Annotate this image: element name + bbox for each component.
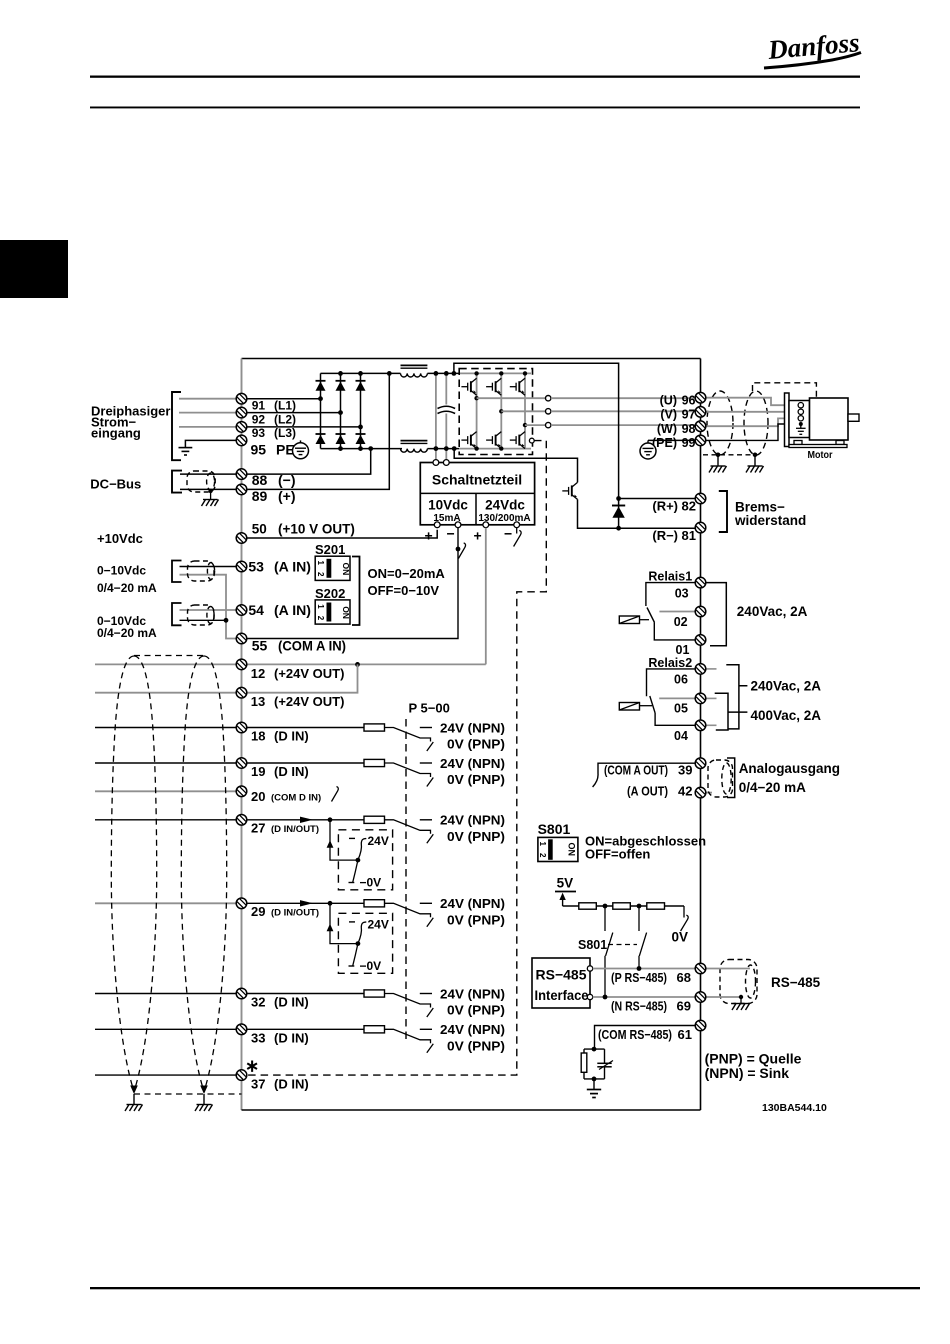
earth ground RC xyxy=(587,1090,601,1098)
resistor R1 xyxy=(579,903,597,909)
24V dash row 33 xyxy=(420,1028,432,1030)
node leg V bottom xyxy=(499,446,503,450)
brake bracket xyxy=(719,491,727,532)
svg-text:18: 18 xyxy=(251,729,265,744)
terminal 61 right xyxy=(695,1020,706,1031)
DC bus bracket xyxy=(172,471,182,493)
inverter output W wire xyxy=(525,424,546,426)
node 54 return xyxy=(224,618,229,623)
svg-text:0V (PNP): 0V (PNP) xyxy=(447,829,505,844)
svg-text:04: 04 xyxy=(674,729,688,743)
chassis ground lens2 xyxy=(195,1105,213,1112)
choke L1 top xyxy=(401,365,428,377)
relay2 stub 05 right xyxy=(706,697,717,699)
selector 24V contact row 29 xyxy=(349,921,355,923)
svg-text:Relais1: Relais1 xyxy=(648,570,692,584)
terminal 29 xyxy=(236,898,247,909)
motor flange xyxy=(785,393,790,447)
analog out bracket xyxy=(727,758,735,798)
node 92/leg2 xyxy=(338,410,343,415)
wire W to 98 xyxy=(551,424,701,426)
terminal 69 right xyxy=(695,992,706,1003)
wire L3 xyxy=(179,426,242,428)
diode D1 upper xyxy=(316,381,326,391)
svg-text:RS−485: RS−485 xyxy=(536,966,587,982)
terminal 27 xyxy=(236,815,247,826)
svg-text:13: 13 xyxy=(251,694,265,709)
terminal 37 xyxy=(236,1070,247,1081)
svg-text:19: 19 xyxy=(251,764,265,779)
diode D2 upper xyxy=(336,381,346,391)
selector box row 27 xyxy=(338,830,392,890)
24V dash row 18 xyxy=(420,727,432,729)
wire 98 to motor xyxy=(706,418,798,426)
svg-text:24V (NPN): 24V (NPN) xyxy=(440,720,505,735)
wire 12 left xyxy=(95,663,242,665)
chassis ground lens1 xyxy=(125,1105,143,1112)
PE symbol 95 xyxy=(293,440,309,458)
switch row 33 xyxy=(385,1029,434,1053)
svg-text:(V): (V) xyxy=(660,408,677,422)
resistor R3 xyxy=(647,903,665,909)
motor PE dashed link xyxy=(753,383,817,398)
inverter dashed module box xyxy=(459,369,532,455)
capacitor C1 plates xyxy=(438,406,456,408)
resistor row 19 xyxy=(364,759,385,766)
wire 54 signal xyxy=(180,609,242,611)
terminal 68 right xyxy=(695,963,706,974)
svg-text:92: 92 xyxy=(252,412,266,426)
svg-text:42: 42 xyxy=(678,784,692,799)
selector 0V contact row 27 xyxy=(353,860,358,883)
wire 19 right xyxy=(242,762,365,764)
node switch1 69 xyxy=(603,995,608,1000)
svg-text:(D IN): (D IN) xyxy=(274,1030,309,1045)
terminal 04 right xyxy=(695,720,706,731)
branch to selector row 27 xyxy=(330,820,358,860)
svg-text:98: 98 xyxy=(682,422,696,436)
svg-text:37: 37 xyxy=(251,1076,265,1091)
svg-text:03: 03 xyxy=(675,586,689,600)
svg-text:(A OUT): (A OUT) xyxy=(627,784,668,799)
terminal 02 right xyxy=(695,606,706,617)
terminal 42 right xyxy=(695,787,706,798)
wire 92 to rectifier xyxy=(242,412,341,414)
svg-text:(A IN): (A IN) xyxy=(274,559,311,575)
svg-text:P 5−00: P 5−00 xyxy=(409,701,450,716)
diode D4 lower xyxy=(316,434,326,444)
switch row 32 xyxy=(385,994,434,1018)
wire V to 97 xyxy=(551,410,701,412)
terminal 82 right xyxy=(695,493,706,504)
wire 29 left xyxy=(95,902,242,904)
relay1 coil xyxy=(619,616,639,624)
resistor row 33 xyxy=(364,1026,385,1033)
cable shield 54 xyxy=(188,605,215,625)
node top bus cap left xyxy=(434,371,439,376)
node leg U bottom xyxy=(474,446,478,450)
svg-text:(−): (−) xyxy=(278,472,296,488)
S801 switch 2 xyxy=(639,906,647,969)
interface pin N xyxy=(587,994,592,999)
node leg2 top xyxy=(338,371,343,376)
wire L1 xyxy=(179,398,242,400)
switch row 29 xyxy=(385,903,434,927)
svg-text:0V (PNP): 0V (PNP) xyxy=(447,912,505,927)
resistor row 32 xyxy=(364,990,385,997)
svg-text:0V (PNP): 0V (PNP) xyxy=(447,772,505,787)
diode D6 lower xyxy=(356,434,366,444)
node leg V mid xyxy=(499,409,503,413)
svg-text:(COM D IN): (COM D IN) xyxy=(271,793,321,804)
wire 10V- to 55 xyxy=(457,528,459,549)
resistor R term xyxy=(581,1053,587,1072)
svg-text:97: 97 xyxy=(682,408,696,422)
Schaltnetzteil box xyxy=(420,463,534,525)
pullup network wire xyxy=(563,905,684,907)
wire 27 right xyxy=(242,819,365,821)
svg-text:81: 81 xyxy=(682,528,696,543)
terminal 88 xyxy=(236,469,247,480)
svg-text:(NPN) = Sink: (NPN) = Sink xyxy=(705,1065,790,1081)
terminal 06 right xyxy=(695,664,706,675)
wire to 82 xyxy=(619,498,701,500)
Danfoss logo xyxy=(764,27,861,68)
svg-text:ON: ON xyxy=(341,606,351,619)
wire 96 to motor xyxy=(706,398,798,406)
24V dash row 19 xyxy=(420,762,432,764)
wire 27 left xyxy=(95,819,242,821)
motor terminal W xyxy=(798,416,803,421)
relay2 wire 06 xyxy=(647,669,701,696)
node leg V top xyxy=(499,371,503,375)
RS-485 interface box xyxy=(532,958,590,1008)
svg-text:(+): (+) xyxy=(278,488,296,504)
svg-text:Interface: Interface xyxy=(535,987,589,1003)
24V dash row 29 xyxy=(420,902,432,904)
svg-text:1: 1 xyxy=(316,561,325,566)
svg-text:99: 99 xyxy=(682,436,696,450)
svg-text:240Vac, 2A: 240Vac, 2A xyxy=(751,679,822,694)
node bottom bus snt2 xyxy=(444,446,449,451)
svg-text:24V: 24V xyxy=(368,834,389,848)
shield ground node 1 xyxy=(716,453,721,458)
svg-text:(D IN): (D IN) xyxy=(274,764,309,779)
wire 53 return xyxy=(180,575,237,639)
svg-text:68: 68 xyxy=(677,970,691,985)
brake IGBT Q7 xyxy=(562,482,577,499)
inverter leg W xyxy=(524,373,526,448)
snt top feed circle 1 xyxy=(433,460,439,466)
earth ground at input xyxy=(179,448,193,455)
svg-text:Schaltnetzteil: Schaltnetzteil xyxy=(432,472,522,488)
lens top dashed link xyxy=(134,655,204,657)
DC+ tap to brake xyxy=(454,363,619,528)
node top bus cap xyxy=(444,371,449,376)
wire L2 xyxy=(179,412,242,414)
switch row 18 xyxy=(385,728,434,752)
svg-text:(D IN/OUT): (D IN/OUT) xyxy=(271,908,319,919)
terminal 97 right xyxy=(695,407,706,418)
DC bus cable shield xyxy=(187,471,215,492)
terminal 05 right xyxy=(695,693,706,704)
top bus after choke xyxy=(427,372,459,374)
svg-text:−: − xyxy=(504,526,512,542)
switch S801 xyxy=(538,837,578,861)
drive box top edge xyxy=(242,358,701,360)
shield wires into capsule xyxy=(706,968,750,970)
svg-text:02: 02 xyxy=(674,615,688,629)
lens1 ground stub xyxy=(133,1094,135,1104)
0V drop with switch xyxy=(681,906,689,931)
svg-text:32: 32 xyxy=(251,995,265,1010)
node top bus 89 tap xyxy=(387,371,392,376)
node R- xyxy=(616,526,621,531)
rectifier bottom bus xyxy=(321,448,403,450)
svg-text:S202: S202 xyxy=(315,586,345,601)
motor feet xyxy=(794,441,802,445)
inverter output V wire xyxy=(501,410,545,412)
lens2 shield arrow xyxy=(200,1086,208,1095)
wire 50 xyxy=(242,530,438,538)
node 12/13 branch xyxy=(355,662,360,667)
svg-text:(D IN): (D IN) xyxy=(274,729,309,744)
terminal 19 xyxy=(236,758,247,769)
svg-text:Motor: Motor xyxy=(808,449,833,461)
IGBT V top xyxy=(486,378,501,395)
snt terminal 24V- xyxy=(514,522,520,528)
snt top feed circle 2 xyxy=(443,460,449,466)
wire 20 left xyxy=(95,790,242,792)
IGBT W top xyxy=(510,378,525,395)
terminal 95 xyxy=(236,435,247,446)
svg-text:(+24V OUT): (+24V OUT) xyxy=(274,694,344,709)
24V dash row 32 xyxy=(420,993,432,995)
svg-text:0−10Vdc: 0−10Vdc xyxy=(97,564,146,578)
svg-text:27: 27 xyxy=(251,821,265,836)
node row 27 branch xyxy=(328,817,333,822)
svg-text:82: 82 xyxy=(682,499,696,514)
svg-text:0/4−20 mA: 0/4−20 mA xyxy=(739,780,806,795)
branch arrow row 29 xyxy=(327,924,334,932)
S801 switch 1 xyxy=(605,906,613,997)
wire 32 right xyxy=(242,993,365,995)
header rule 2 xyxy=(90,107,860,109)
snt terminal 10V- xyxy=(455,522,461,528)
svg-text:12: 12 xyxy=(251,666,265,681)
wire 53 signal xyxy=(180,566,242,568)
svg-text:69: 69 xyxy=(677,998,691,1013)
svg-text:+10Vdc: +10Vdc xyxy=(97,531,143,546)
snt 24V- disconnect hook xyxy=(514,528,522,547)
wire 24V+ to 12 xyxy=(242,663,486,665)
svg-text:(P RS−485): (P RS−485) xyxy=(611,970,667,985)
svg-text:0V (PNP): 0V (PNP) xyxy=(447,1003,505,1018)
node 93/leg3 xyxy=(358,425,363,430)
svg-text:(W): (W) xyxy=(657,422,677,436)
svg-text:10Vdc: 10Vdc xyxy=(428,498,468,513)
DC link vertical left xyxy=(435,373,437,462)
terminal 91 xyxy=(236,393,247,404)
RS485 shield ground node xyxy=(739,995,743,999)
svg-text:24V (NPN): 24V (NPN) xyxy=(440,813,505,828)
selector node row 29 xyxy=(356,941,361,946)
motor terminal V xyxy=(798,409,803,414)
svg-text:06: 06 xyxy=(674,673,688,687)
branch arrow row 27 xyxy=(327,840,334,848)
terminal 33 xyxy=(236,1024,247,1035)
node leg U top xyxy=(474,371,478,375)
brake collector feed xyxy=(454,449,577,483)
IGBT V bottom xyxy=(486,432,501,449)
node bias 2 xyxy=(637,904,642,909)
svg-text:OFF=offen: OFF=offen xyxy=(585,847,650,862)
wire to 81 xyxy=(619,527,701,529)
analog out shield stub 42 xyxy=(706,792,712,794)
node bias 1 xyxy=(603,904,608,909)
svg-text:−0V: −0V xyxy=(360,875,382,889)
motor cable shield ellipse 1 xyxy=(707,391,733,455)
svg-text:(L3): (L3) xyxy=(274,426,296,440)
svg-text:(D IN): (D IN) xyxy=(274,1076,309,1091)
rectifier leg 2 xyxy=(340,373,342,448)
node row 29 branch xyxy=(328,901,333,906)
IGBT U top xyxy=(461,378,476,395)
relay2 contact arm xyxy=(650,696,655,713)
wire 13 left xyxy=(95,692,242,694)
relay1 wire 03 xyxy=(646,583,701,606)
svg-text:(N RS−485): (N RS−485) xyxy=(611,998,667,1013)
svg-text:53: 53 xyxy=(248,559,264,575)
wire PE to 99 xyxy=(648,439,701,441)
inverter leg U xyxy=(476,373,478,448)
switch S201 xyxy=(315,556,351,580)
terminal 18 xyxy=(236,722,247,733)
terminal 39 right xyxy=(695,758,706,769)
node RC bottom xyxy=(592,1077,597,1082)
relay2 wire 05 stub xyxy=(659,697,700,699)
relay1 contact arm xyxy=(647,608,655,623)
IGBT U bottom xyxy=(461,432,476,449)
svg-text:ON: ON xyxy=(567,843,577,857)
output circle V xyxy=(546,409,551,414)
svg-text:2: 2 xyxy=(316,572,325,577)
svg-text:+: + xyxy=(474,528,482,544)
svg-text:(L2): (L2) xyxy=(274,412,296,426)
node R+ xyxy=(616,496,621,501)
svg-text:93: 93 xyxy=(252,426,266,440)
svg-text:61: 61 xyxy=(678,1027,692,1042)
svg-text:1: 1 xyxy=(538,842,547,847)
wire 19 left xyxy=(95,762,242,764)
svg-text:(R−): (R−) xyxy=(652,528,678,543)
bracket analog in 2 xyxy=(172,603,182,625)
cable shield 53 xyxy=(188,561,215,581)
svg-text:2: 2 xyxy=(316,616,325,621)
wire 37 left xyxy=(95,1074,242,1076)
node leg W mid xyxy=(523,423,527,427)
svg-text:(PNP) = Quelle: (PNP) = Quelle xyxy=(705,1050,802,1066)
snt terminal 24V+ xyxy=(483,522,489,528)
diode D3 upper xyxy=(356,381,366,391)
shield bottom dashed link xyxy=(703,454,755,456)
chassis ground RS485 shield xyxy=(732,1004,750,1011)
rectifier leg 3 xyxy=(360,373,362,448)
terminal 53 xyxy=(236,561,247,572)
resistor row 27 xyxy=(364,816,385,823)
terminal 20 xyxy=(236,786,247,797)
wire 18 right xyxy=(242,727,365,729)
svg-text:96: 96 xyxy=(682,393,696,407)
node 91/leg1 xyxy=(318,396,323,401)
inverter leg V xyxy=(500,373,502,448)
DC shield chassis ground xyxy=(202,500,219,507)
svg-text:DC−Bus: DC−Bus xyxy=(90,477,141,492)
svg-text:0V (PNP): 0V (PNP) xyxy=(447,737,505,752)
svg-text:S801: S801 xyxy=(578,938,607,952)
svg-text:240Vac, 2A: 240Vac, 2A xyxy=(737,604,808,619)
svg-text:95: 95 xyxy=(251,442,267,458)
motor PE node xyxy=(799,422,803,426)
RS485 cable shield xyxy=(720,960,757,1004)
brake emitter wire xyxy=(578,499,619,528)
svg-text:RS−485: RS−485 xyxy=(771,975,821,990)
10V- disconnect hook xyxy=(458,543,465,559)
wire 29 right xyxy=(242,902,365,904)
hook 20 xyxy=(332,787,339,802)
svg-text:24V (NPN): 24V (NPN) xyxy=(440,756,505,771)
motor earth xyxy=(796,424,806,434)
svg-text:(L1): (L1) xyxy=(274,398,296,412)
lens1 shield arrow xyxy=(130,1086,138,1095)
black side tab xyxy=(0,240,68,298)
svg-text:Analogausgang: Analogausgang xyxy=(739,761,840,776)
svg-text:130BA544.10: 130BA544.10 xyxy=(762,1102,827,1114)
wire 54 return xyxy=(180,619,227,621)
svg-text:400Vac, 2A: 400Vac, 2A xyxy=(751,708,822,723)
svg-text:54: 54 xyxy=(248,602,264,618)
rectifier top bus xyxy=(321,372,401,374)
relay2 stub 06 right xyxy=(706,668,717,670)
svg-text:(COM A IN): (COM A IN) xyxy=(278,638,346,654)
wire 33 left xyxy=(95,1028,242,1030)
rectifier leg 1 xyxy=(320,373,322,448)
5V rail bar xyxy=(555,891,576,893)
output circle W xyxy=(546,422,551,427)
RC termination network xyxy=(592,1047,597,1052)
wire 32 left xyxy=(95,993,242,995)
drive box right edge xyxy=(700,359,702,1111)
snt terminal 10V+ xyxy=(434,522,440,528)
24V dash row 27 xyxy=(420,819,432,821)
svg-text:89: 89 xyxy=(252,488,268,504)
relay2 outer bracket 240V xyxy=(726,665,747,729)
motor body xyxy=(810,398,849,440)
relay2 inner bracket 400V xyxy=(715,693,748,730)
wire 93 to rectifier xyxy=(242,426,361,428)
svg-text:OFF=0−10V: OFF=0−10V xyxy=(368,583,440,598)
svg-text:39: 39 xyxy=(678,763,692,778)
DC shield ground node xyxy=(208,489,212,493)
chassis ground motor 2 xyxy=(746,466,764,473)
svg-text:1: 1 xyxy=(316,604,325,609)
DC link capacitor vertical xyxy=(445,373,447,404)
terminal 81 right xyxy=(695,522,706,533)
wire 99 to motor PE xyxy=(706,424,798,440)
motor shaft xyxy=(848,414,859,421)
terminal 54 xyxy=(236,605,247,616)
relay1 wire 02 stub xyxy=(659,611,700,613)
